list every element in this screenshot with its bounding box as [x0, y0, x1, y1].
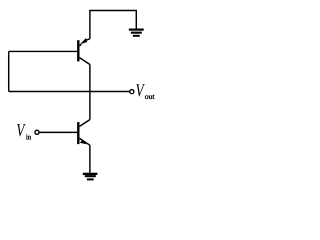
ground (top right)	[129, 29, 144, 37]
label Vin	[17, 124, 31, 139]
wire Q1 collector down to Q2 collector	[89, 65, 91, 120]
wire Q2 emitter down to bottom ground	[89, 145, 91, 173]
transistor Q2 (NPN)	[77, 120, 90, 146]
wire feedback left vertical	[8, 51, 10, 91]
node Vin terminal	[35, 130, 39, 134]
wire Q1 base to left	[9, 50, 78, 52]
wire from Q1 emitter up and right to top ground	[90, 11, 136, 39]
ground (bottom)	[83, 173, 98, 181]
transistor Q1 (PNP)	[77, 38, 90, 65]
label Vout	[136, 84, 154, 99]
wire Vin terminal to Q2 base	[39, 131, 77, 133]
node Vout terminal	[130, 90, 134, 94]
wire feedback bottom horizontal to Vout	[9, 91, 130, 93]
